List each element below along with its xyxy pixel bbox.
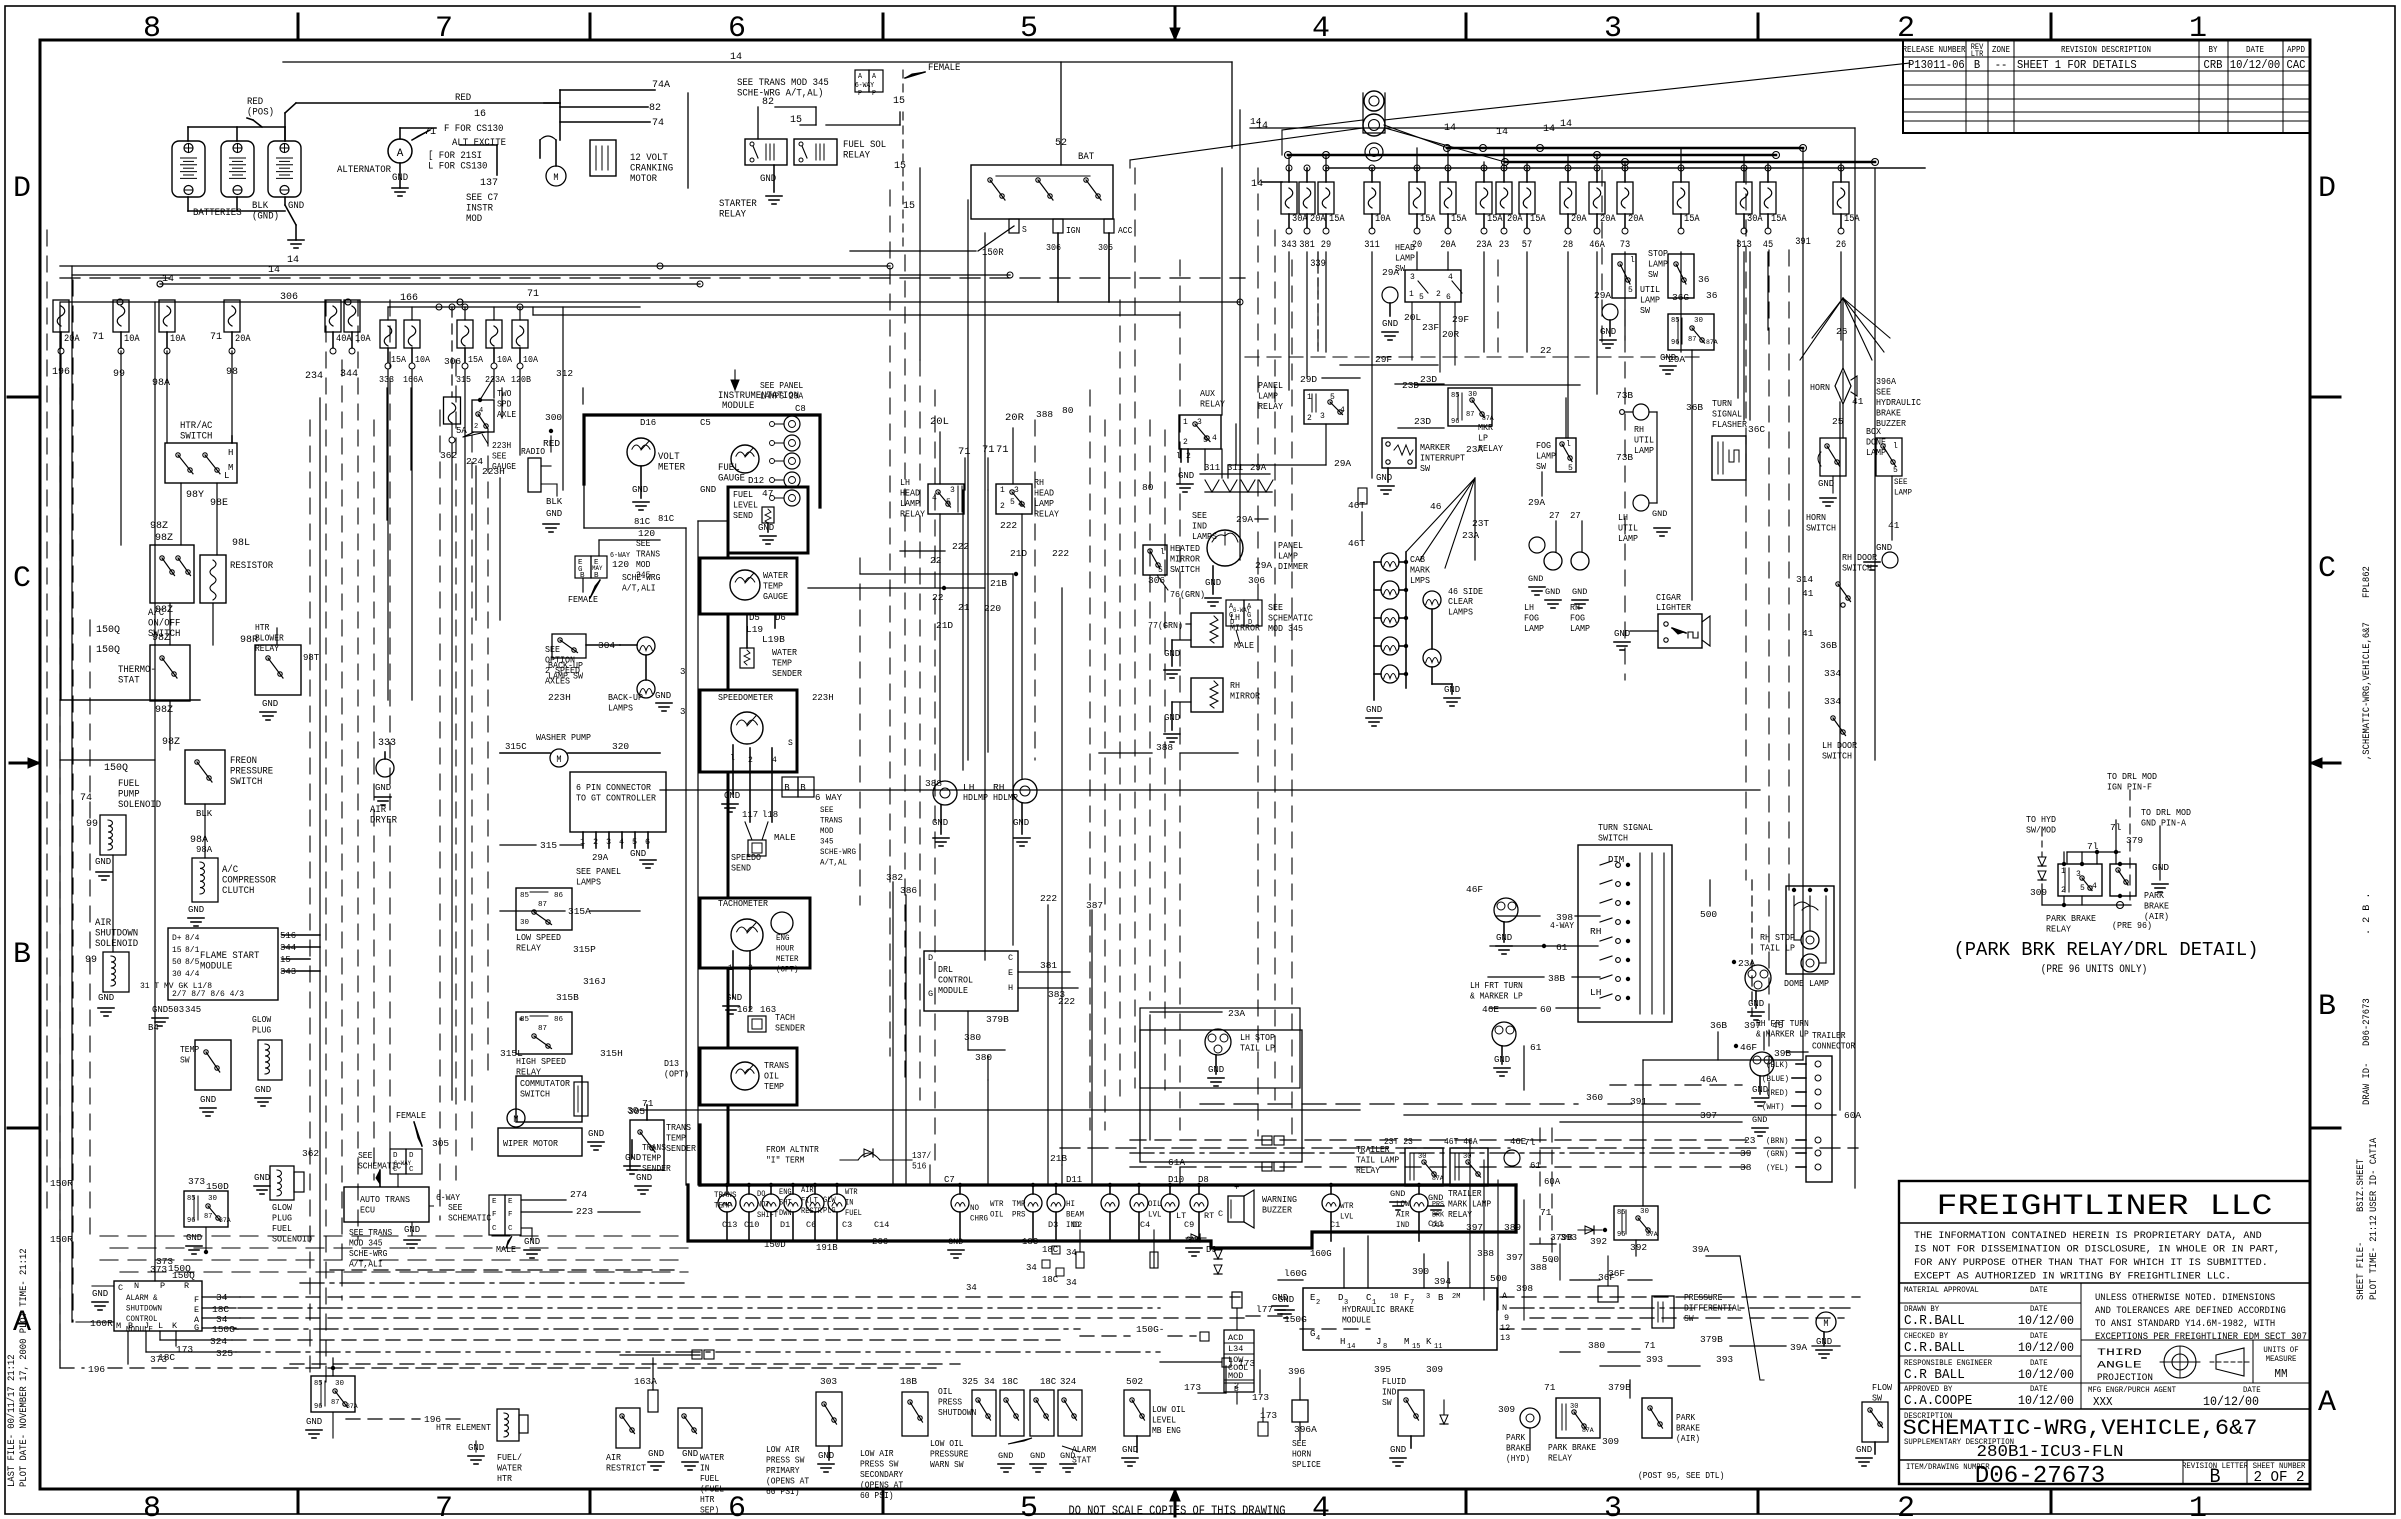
svg-text:HIGH SPEED: HIGH SPEED [516, 1056, 566, 1067]
fuse 20A 196 [53, 300, 69, 332]
svg-text:41: 41 [1852, 396, 1864, 407]
svg-text:389: 389 [1504, 1222, 1521, 1233]
svg-text:THIRD: THIRD [2097, 1347, 2142, 1359]
svg-text:GND: GND [255, 1085, 271, 1095]
svg-text:SHEET 1 FOR DETAILS: SHEET 1 FOR DETAILS [2017, 58, 2137, 72]
svg-text:RESTR: RESTR [801, 1207, 822, 1216]
svg-text:315P: 315P [573, 944, 596, 955]
svg-text:C: C [2318, 552, 2336, 586]
svg-text:80: 80 [1062, 405, 1074, 416]
svg-text:LOW OIL: LOW OIL [930, 1439, 964, 1449]
svg-text:GND: GND [375, 783, 391, 793]
svg-text:IGN: IGN [1066, 226, 1080, 236]
svg-text:29A: 29A [1236, 514, 1253, 525]
harness dash verticals right [1257, 168, 1259, 1136]
zone ticks [297, 14, 300, 40]
svg-text:SEE TRANS MOD 345: SEE TRANS MOD 345 [737, 78, 829, 89]
trans oil temp thick box [700, 1048, 797, 1105]
svg-text:392: 392 [1590, 1236, 1607, 1247]
svg-text:TRANS: TRANS [714, 1190, 737, 1200]
svg-text:GND: GND [998, 1451, 1013, 1461]
svg-text:1: 1 [1000, 486, 1005, 495]
svg-text:5: 5 [1158, 566, 1163, 575]
svg-text:14: 14 [1347, 1343, 1355, 1351]
svg-text:36B: 36B [1686, 402, 1703, 413]
svg-text:RADIO: RADIO [521, 447, 545, 457]
svg-text:315: 315 [456, 374, 471, 385]
svg-text:222: 222 [952, 541, 969, 552]
svg-text:(OPENS AT: (OPENS AT [860, 1481, 904, 1491]
fuse 15A 20 [1416, 168, 1418, 182]
svg-text:LAMP: LAMP [900, 498, 920, 509]
svg-text:DIMMER: DIMMER [1278, 561, 1308, 572]
svg-text:380: 380 [1588, 1340, 1605, 1351]
svg-text:387: 387 [1086, 900, 1103, 911]
svg-text:TAIL LP: TAIL LP [1760, 943, 1795, 954]
svg-text:UTIL: UTIL [1634, 435, 1654, 446]
svg-text:RELAY: RELAY [1448, 1210, 1473, 1220]
svg-text:SHIFT: SHIFT [757, 1211, 778, 1220]
svg-text:379B: 379B [1608, 1382, 1631, 1393]
svg-text:396A: 396A [1876, 376, 1896, 387]
svg-text:F FOR CS130: F FOR CS130 [444, 124, 503, 135]
svg-text:l: l [1160, 548, 1165, 557]
svg-text:96: 96 [1617, 1231, 1625, 1239]
svg-text:LAMP: LAMP [1536, 451, 1556, 462]
svg-text:ON/OFF: ON/OFF [148, 618, 180, 630]
svg-text:4: 4 [1316, 1335, 1320, 1343]
svg-text:137/: 137/ [912, 1151, 931, 1161]
svg-text:E: E [194, 1305, 199, 1315]
svg-text:GND: GND [306, 1417, 322, 1427]
alarm shutdown control module [114, 1281, 202, 1331]
svg-text:MEASURE: MEASURE [2266, 1355, 2297, 1364]
svg-text:61: 61 [1556, 942, 1568, 953]
svg-text:IND: IND [1066, 1220, 1080, 1230]
hydraulic brake module [1303, 1288, 1497, 1350]
svg-text:ALT EXCITE: ALT EXCITE [452, 138, 506, 149]
telltale lamp [1024, 1194, 1042, 1212]
svg-text:OIL: OIL [1148, 1199, 1162, 1209]
svg-text:(HYD): (HYD) [1506, 1454, 1530, 1464]
svg-text:81C: 81C [658, 514, 675, 524]
svg-text:396A: 396A [1294, 1424, 1317, 1435]
svg-text:SCHE-WRG: SCHE-WRG [622, 573, 660, 583]
svg-text:HDLMP: HDLMP [993, 792, 1018, 803]
svg-text:5: 5 [1419, 293, 1424, 302]
svg-text:166A: 166A [403, 374, 423, 385]
svg-text:WATER: WATER [772, 647, 797, 658]
svg-text:345: 345 [185, 1005, 201, 1015]
svg-text:162: 162 [737, 1005, 753, 1015]
svg-text:TEMP: TEMP [764, 1081, 784, 1092]
svg-text:LAMP: LAMP [1634, 445, 1654, 456]
svg-text:HTR: HTR [497, 1473, 512, 1484]
svg-text:173: 173 [1184, 1382, 1201, 1393]
svg-text:60A: 60A [1844, 1110, 1861, 1121]
svg-text:SENDER: SENDER [642, 1164, 671, 1174]
svg-text:MIRROR: MIRROR [1230, 691, 1260, 702]
svg-text:166: 166 [400, 293, 418, 304]
fuse 15A 20A [1447, 168, 1449, 182]
svg-text:71: 71 [210, 332, 222, 343]
svg-text:23: 23 [1499, 240, 1509, 251]
svg-text:SCHEMATIC: SCHEMATIC [448, 1214, 492, 1224]
svg-text:MOD: MOD [820, 826, 834, 836]
svg-text:TRANS: TRANS [764, 1060, 789, 1071]
svg-text:20A: 20A [1507, 214, 1523, 225]
svg-text:RH: RH [1590, 926, 1601, 937]
svg-text:RH DOOR: RH DOOR [1842, 552, 1877, 563]
svg-text:SWITCH: SWITCH [180, 432, 212, 443]
svg-text:DATE: DATE [2246, 45, 2264, 55]
svg-text:P: P [160, 1281, 165, 1291]
svg-text:36B: 36B [1820, 640, 1837, 651]
svg-text:14: 14 [1543, 124, 1555, 135]
svg-text:2: 2 [1897, 1492, 1915, 1519]
svg-text:500: 500 [1542, 1254, 1559, 1265]
svg-text:393: 393 [1716, 1354, 1733, 1365]
svg-text:223H: 223H [492, 441, 511, 451]
svg-text:98Z: 98Z [150, 521, 168, 532]
svg-text:87: 87 [1688, 336, 1696, 344]
svg-text:18C: 18C [1022, 1237, 1039, 1247]
svg-text:1: 1 [1307, 393, 1312, 402]
svg-text:16: 16 [474, 109, 486, 120]
svg-text:18C: 18C [1040, 1377, 1057, 1387]
svg-text:173: 173 [176, 1344, 193, 1355]
svg-text:3: 3 [1344, 1299, 1348, 1307]
svg-text:M: M [116, 1321, 121, 1331]
svg-text:MIRROR: MIRROR [1170, 554, 1200, 565]
svg-text:RED: RED [455, 93, 471, 104]
svg-text:LH: LH [1590, 987, 1601, 998]
speedometer thick box [700, 690, 797, 772]
svg-text:10/12/00: 10/12/00 [2018, 1393, 2074, 1408]
svg-text:ENG: ENG [779, 1188, 792, 1197]
svg-text:PRESS: PRESS [938, 1398, 962, 1408]
svg-text:5: 5 [1568, 464, 1573, 473]
svg-text:FLUID: FLUID [1382, 1377, 1406, 1387]
svg-text:D: D [409, 1152, 414, 1160]
svg-text:388: 388 [1156, 742, 1173, 753]
svg-text:NO: NO [970, 1203, 979, 1213]
svg-text:WATER: WATER [700, 1453, 725, 1463]
svg-text:10/12/00: 10/12/00 [2018, 1340, 2074, 1355]
svg-text:A/T,ALI: A/T,ALI [349, 1260, 383, 1270]
svg-text:39: 39 [1740, 1148, 1752, 1159]
svg-text:B: B [128, 1321, 133, 1331]
svg-text:HEAD: HEAD [1395, 242, 1415, 253]
fuse 10A 166A [411, 307, 413, 320]
svg-text:GND: GND [932, 818, 948, 828]
svg-text:MARKER: MARKER [1420, 442, 1450, 453]
svg-text:N: N [134, 1281, 139, 1291]
svg-text:B: B [1974, 58, 1980, 72]
svg-text:C: C [409, 1166, 414, 1174]
svg-text:98L: 98L [232, 538, 250, 549]
6 pin connector to GT controller [570, 772, 666, 832]
svg-text:FUEL: FUEL [118, 779, 140, 790]
svg-text:D1: D1 [780, 1220, 790, 1230]
svg-text:309: 309 [2030, 887, 2047, 898]
svg-text:WIPER MOTOR: WIPER MOTOR [503, 1138, 558, 1149]
svg-text:B: B [784, 783, 790, 793]
svg-text:IN: IN [845, 1199, 854, 1208]
svg-text:21D: 21D [1010, 548, 1027, 559]
svg-text:163A: 163A [634, 1376, 657, 1387]
svg-text:E: E [492, 1198, 497, 1206]
ind lamps connector bar [1205, 491, 1272, 493]
title block [1899, 1181, 2310, 1484]
fuse drop verticals left cluster [386, 388, 388, 520]
svg-text:30: 30 [172, 970, 182, 979]
svg-text:71: 71 [92, 332, 104, 343]
svg-text:500: 500 [1700, 909, 1717, 920]
svg-text:(OPENS AT: (OPENS AT [766, 1477, 810, 1487]
svg-text:383: 383 [1048, 989, 1065, 1000]
horn fan wires [1800, 298, 1843, 360]
svg-text:LEVEL: LEVEL [733, 500, 758, 511]
svg-text:TURN SIGNAL: TURN SIGNAL [1598, 822, 1653, 833]
svg-text:RELAY: RELAY [843, 151, 870, 162]
svg-text:15: 15 [894, 161, 906, 172]
svg-text:CONTROL: CONTROL [938, 975, 973, 986]
svg-text:HORN: HORN [1292, 1450, 1311, 1460]
svg-text:81C: 81C [634, 517, 651, 527]
svg-text:309: 309 [1498, 1404, 1515, 1415]
svg-text:METER: METER [658, 463, 685, 474]
svg-text:306: 306 [1148, 575, 1165, 586]
svg-text:GND: GND [625, 1153, 641, 1163]
svg-text:71: 71 [642, 1098, 654, 1109]
wire 29F 23D 22 [1340, 364, 1438, 366]
svg-text:WTR: WTR [1340, 1201, 1354, 1211]
svg-text:(YEL): (YEL) [1766, 1163, 1789, 1173]
svg-text:ALARM &: ALARM & [126, 1293, 158, 1303]
svg-text:. 2 B .: . 2 B . [2361, 893, 2373, 935]
telltale column C8 [784, 416, 800, 432]
fuse 10A 344 [344, 300, 360, 332]
telltale bus thick bottom [688, 1185, 1516, 1248]
svg-text:309: 309 [1426, 1364, 1443, 1375]
svg-text:PANEL: PANEL [1258, 380, 1283, 391]
svg-text:373: 373 [156, 1256, 173, 1267]
svg-text:MKR: MKR [1478, 422, 1493, 433]
svg-text:20A: 20A [235, 334, 251, 345]
svg-text:14: 14 [1251, 179, 1263, 190]
svg-text:500: 500 [1490, 1273, 1507, 1284]
svg-text:3: 3 [1014, 486, 1019, 495]
svg-text:SWITCH: SWITCH [1806, 523, 1836, 534]
svg-text:160R: 160R [90, 1318, 113, 1329]
svg-text:HEAD: HEAD [1034, 488, 1054, 499]
svg-text:HYDRAULIC BRAKE: HYDRAULIC BRAKE [1342, 1305, 1414, 1315]
svg-text:30: 30 [520, 919, 530, 927]
svg-text:SW: SW [1536, 461, 1546, 472]
svg-text:HTR ELEMENT: HTR ELEMENT [436, 1422, 491, 1433]
svg-text:& MARKER LP: & MARKER LP [1470, 992, 1523, 1002]
svg-text:EXCEPT AS AUTHORIZED IN WRITIN: EXCEPT AS AUTHORIZED IN WRITING BY FREIG… [1914, 1271, 2231, 1283]
svg-text:99: 99 [86, 819, 98, 830]
svg-text:379B: 379B [1700, 1334, 1723, 1345]
svg-text:SEE PANEL: SEE PANEL [760, 381, 803, 391]
fuse 15A 26 [1840, 168, 1842, 182]
svg-text:362: 362 [302, 1148, 319, 1159]
svg-text:,SCHEMATIC-WRG,VEHICLE,6&7: ,SCHEMATIC-WRG,VEHICLE,6&7 [2361, 622, 2373, 760]
svg-text:1: 1 [1372, 1299, 1376, 1307]
svg-text:WTR: WTR [990, 1199, 1004, 1209]
svg-text:9: 9 [1504, 1313, 1509, 1323]
fuse 15A 315 [464, 307, 466, 320]
svg-text:38: 38 [1740, 1162, 1752, 1173]
svg-text:BACK-UP: BACK-UP [608, 692, 643, 703]
svg-text:GAUGE: GAUGE [763, 591, 788, 602]
svg-text:S: S [788, 739, 793, 748]
fog lamp switch [1556, 438, 1576, 472]
svg-text:ALTERNATOR: ALTERNATOR [337, 165, 391, 176]
svg-text:30A: 30A [1292, 214, 1308, 225]
svg-text:RT: RT [1204, 1211, 1214, 1221]
svg-text:8/1: 8/1 [185, 946, 200, 955]
svg-text:85: 85 [1617, 1209, 1625, 1217]
panel lamp dimmer [1207, 530, 1243, 566]
svg-text:GND: GND [1382, 319, 1398, 329]
battery bus wires [188, 126, 285, 128]
svg-text:INTERRUPT: INTERRUPT [1420, 453, 1465, 464]
svg-text:DRL: DRL [938, 964, 953, 975]
svg-text:B: B [13, 938, 31, 972]
svg-text:99: 99 [113, 369, 125, 380]
svg-text:HOUR: HOUR [776, 944, 794, 954]
svg-text:381: 381 [1299, 240, 1315, 251]
svg-text:SEND: SEND [731, 863, 751, 874]
svg-text:86: 86 [554, 892, 564, 900]
svg-text:SW/MOD: SW/MOD [2026, 825, 2056, 836]
svg-text:234: 234 [305, 371, 323, 382]
svg-text:STOP: STOP [1648, 248, 1668, 259]
svg-text:(WHT): (WHT) [1762, 1102, 1785, 1112]
svg-text:SEE C7: SEE C7 [466, 193, 498, 204]
svg-text:21B: 21B [990, 578, 1007, 589]
svg-text:STAT: STAT [118, 676, 140, 687]
svg-text:RH: RH [1570, 602, 1580, 613]
svg-text:SOLENOID: SOLENOID [272, 1234, 312, 1245]
lh door switch [1831, 716, 1835, 720]
svg-text:GND: GND [288, 201, 304, 212]
back-up lamp switch [552, 634, 586, 658]
revision table [1903, 40, 2310, 133]
svg-text:N: N [1502, 1303, 1507, 1313]
svg-text:10A: 10A [1375, 214, 1391, 225]
svg-text:DO NOT SCALE COPIES OF THIS DR: DO NOT SCALE COPIES OF THIS DRAWING [1069, 1504, 1286, 1518]
svg-text:SEE: SEE [1268, 602, 1283, 613]
svg-text:GND: GND [1652, 509, 1667, 519]
svg-text:H: H [1340, 1337, 1345, 1347]
svg-text:ECU: ECU [360, 1205, 375, 1216]
svg-text:15A: 15A [1420, 214, 1436, 225]
misc junction rings [657, 263, 663, 269]
svg-text:BACK-UP: BACK-UP [548, 660, 583, 671]
svg-text:M: M [553, 173, 558, 184]
svg-text:WARNING: WARNING [1262, 1194, 1297, 1205]
svg-text:GLOW: GLOW [252, 1015, 272, 1025]
svg-text:GND: GND [632, 485, 648, 495]
svg-text:PANEL: PANEL [1278, 540, 1303, 551]
svg-text:80: 80 [1142, 482, 1154, 493]
svg-text:29D: 29D [1300, 374, 1317, 385]
svg-text:LAMP: LAMP [1894, 488, 1912, 498]
svg-text:222: 222 [1052, 548, 1069, 559]
svg-text:343: 343 [1281, 240, 1297, 251]
svg-text:LOW AIR: LOW AIR [766, 1445, 800, 1455]
svg-text:LIGHTER: LIGHTER [1656, 602, 1691, 613]
cluster spine wires [685, 528, 687, 1185]
svg-text:D06-27673: D06-27673 [2361, 998, 2373, 1046]
center risers 382 386 [892, 882, 894, 1185]
svg-text:PLOT TIME- 21:12: PLOT TIME- 21:12 [2368, 1215, 2380, 1300]
svg-text:20R: 20R [1442, 329, 1459, 340]
svg-text:36C: 36C [1748, 424, 1765, 435]
svg-text:MOD 345: MOD 345 [1268, 623, 1303, 634]
svg-text:SHUTDOWN: SHUTDOWN [95, 929, 138, 940]
svg-text:K: K [1426, 1337, 1432, 1347]
svg-text:HTR: HTR [700, 1495, 715, 1505]
ring terminal stud [1364, 91, 1384, 111]
svg-text:MOD 345: MOD 345 [349, 1239, 383, 1249]
svg-text:LEVEL: LEVEL [1152, 1416, 1176, 1426]
fuse 10A 98A [159, 300, 175, 332]
svg-text:A/T,AL: A/T,AL [820, 858, 847, 868]
low cool mod [1224, 1330, 1254, 1392]
svg-text:FUEL: FUEL [272, 1223, 292, 1234]
svg-text:392: 392 [1630, 1242, 1647, 1253]
svg-text:23A: 23A [1228, 1008, 1245, 1019]
svg-text:150D: 150D [206, 1181, 229, 1192]
svg-text:71: 71 [958, 446, 971, 458]
svg-text:6: 6 [728, 1492, 746, 1519]
svg-text:GND: GND [1545, 587, 1560, 597]
svg-text:l: l [1630, 256, 1635, 265]
svg-text:GND: GND [588, 1129, 604, 1139]
svg-text:150R: 150R [50, 1178, 73, 1189]
svg-text:GND: GND [1856, 1445, 1872, 1455]
svg-text:J: J [144, 1321, 149, 1331]
svg-text:BOX: BOX [1866, 426, 1881, 437]
svg-text:71: 71 [1540, 1207, 1552, 1218]
svg-text:B: B [2318, 990, 2336, 1024]
B B connector [782, 777, 798, 797]
svg-text:TWO: TWO [497, 389, 511, 399]
svg-text:GND: GND [1366, 705, 1382, 715]
svg-text:1: 1 [1183, 418, 1188, 427]
svg-text:RELAY: RELAY [1034, 509, 1059, 520]
svg-text:BUZZER: BUZZER [1262, 1205, 1292, 1216]
svg-text:(GRN): (GRN) [1766, 1149, 1789, 1159]
svg-text:RELAY: RELAY [1548, 1454, 1573, 1464]
svg-text:USER ID- CATIA: USER ID- CATIA [2368, 1137, 2380, 1212]
svg-text:29A: 29A [592, 853, 609, 863]
svg-text:373: 373 [150, 1354, 167, 1365]
svg-text:60 PSI): 60 PSI) [766, 1487, 800, 1497]
svg-text:AIR: AIR [801, 1186, 814, 1195]
svg-text:516: 516 [912, 1162, 926, 1172]
svg-text:CLUTCH: CLUTCH [222, 886, 254, 897]
high speed relay [516, 1012, 572, 1054]
svg-text:SPEEDO: SPEEDO [731, 852, 761, 863]
svg-text:SHEET FILE-: SHEET FILE- [2355, 1242, 2367, 1300]
svg-text:344: 344 [280, 943, 296, 953]
